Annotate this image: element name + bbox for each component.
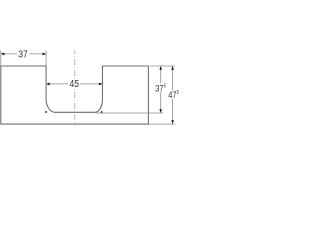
svg-text:37: 37 [18,49,27,60]
arrow right of dim 37 [43,53,47,56]
extension line top right for vertical dims [150,65,175,67]
halo for label 37 [17,50,29,59]
centerline of cutout [74,51,76,125]
halo for label 37.5 [154,83,167,92]
arrow left of dim 45 [46,83,50,86]
halo for label 45 [68,79,80,88]
dimension line 47.5 [172,66,174,124]
countertop outline with U-cutout [1,66,149,124]
halo for label 47.5 [167,90,179,99]
svg-text:45: 45 [70,79,79,90]
extension line from cutout bottom for dim 37.5 [96,112,164,114]
junction dot at cutout bottom left corner [45,111,47,113]
arrow top of dim 47.5 [171,66,174,70]
dimension line 37.5 [160,66,162,113]
arrow left of dim 37 [1,53,5,56]
junction dot at cutout bottom right corner [101,111,103,113]
arrow right of dim 45 [99,83,103,86]
dimension line 45 [46,83,102,85]
extension line bottom right for dim 47.5 [148,123,175,125]
arrow bottom of dim 37.5 [159,109,162,113]
arrow top of dim 37.5 [159,66,162,70]
arrow bottom of dim 47.5 [171,120,174,124]
extension line at cutout left edge for dim 37 [45,51,47,67]
dimension line 37 [1,53,46,55]
extension line left for dim 37 [0,51,2,67]
